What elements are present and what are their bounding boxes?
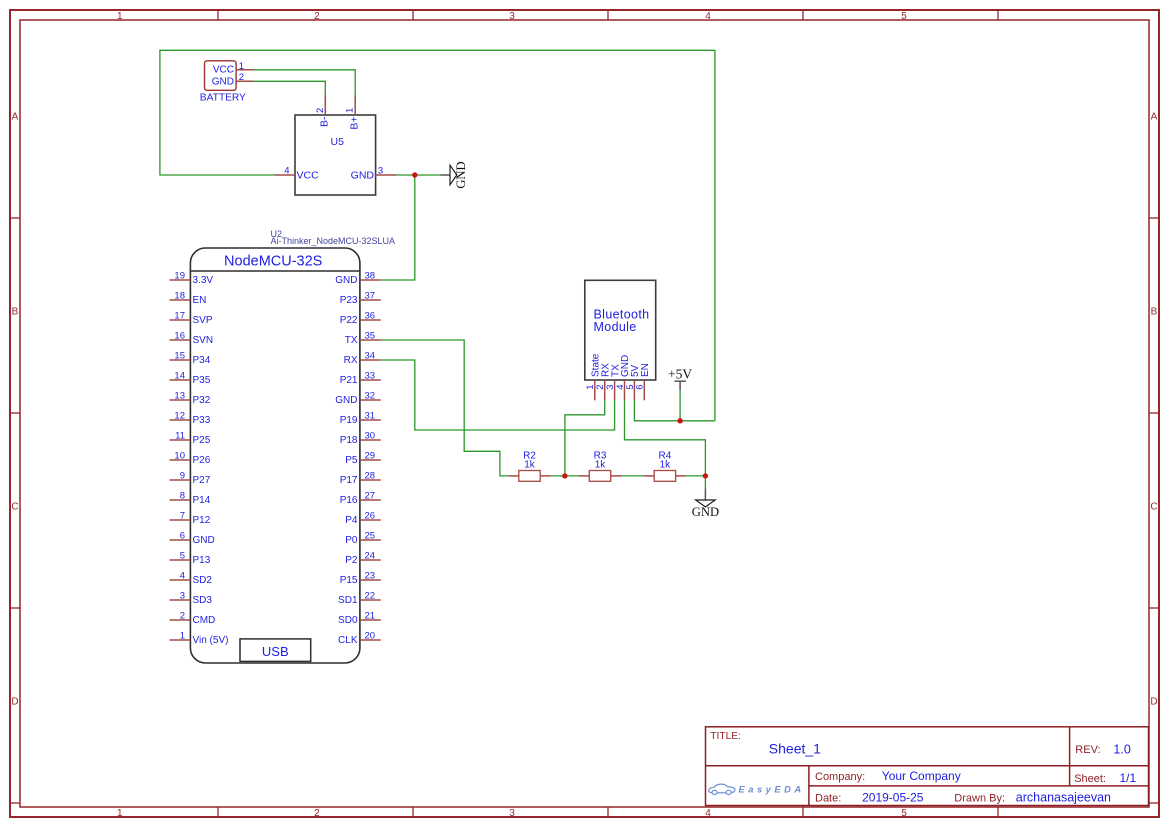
U5 pin 3 (GND) — [351, 166, 397, 182]
Bluetooth module pin 4 (GND) — [615, 355, 631, 401]
U5 pin 2 (B-) — [315, 95, 331, 127]
svg-text:VCC: VCC — [213, 65, 234, 76]
svg-text:20: 20 — [365, 631, 376, 642]
svg-text:P19: P19 — [340, 415, 358, 426]
wire NodeMCU RX to Bluetooth TX — [381, 360, 615, 430]
svg-text:P4: P4 — [345, 515, 358, 526]
svg-text:2: 2 — [315, 108, 326, 113]
wire U5 GND down to NodeMCU GND pin 38 — [381, 175, 415, 280]
svg-text:18: 18 — [174, 291, 185, 302]
svg-text:13: 13 — [174, 391, 185, 402]
svg-text:28: 28 — [365, 471, 376, 482]
NodeMCU pin 22 (SD1) — [338, 591, 381, 607]
NodeMCU pin 12 (P33) — [170, 411, 211, 427]
svg-text:Drawn By:: Drawn By: — [954, 793, 1005, 805]
Bluetooth module pin 6 (EN) — [635, 363, 651, 400]
svg-text:VCC: VCC — [297, 170, 320, 182]
Bluetooth module pin 3 (TX) — [605, 364, 621, 400]
junction R4/ground node — [703, 473, 708, 478]
svg-text:B: B — [12, 307, 19, 318]
NodeMCU pin 28 (P17) — [340, 471, 381, 487]
NodeMCU pin 27 (P16) — [340, 491, 381, 507]
resistor R4 (1k) — [644, 451, 686, 482]
wire R3 to R4 — [621, 475, 644, 477]
svg-text:P23: P23 — [340, 295, 358, 306]
wire Bluetooth 5V to +5V rail — [634, 400, 715, 421]
svg-text:17: 17 — [174, 311, 185, 322]
svg-text:SD2: SD2 — [193, 575, 213, 586]
NodeMCU pin 23 (P15) — [340, 571, 381, 587]
svg-text:1k: 1k — [524, 460, 536, 471]
battery pin 1 (VCC) — [236, 61, 253, 72]
svg-text:1: 1 — [117, 808, 123, 819]
svg-text:3: 3 — [509, 11, 515, 22]
svg-text:P14: P14 — [193, 495, 211, 506]
svg-text:P25: P25 — [193, 435, 211, 446]
svg-text:D: D — [1150, 697, 1157, 708]
svg-text:22: 22 — [365, 591, 376, 602]
svg-text:10: 10 — [174, 451, 185, 462]
svg-text:GND: GND — [212, 77, 234, 88]
svg-text:P5: P5 — [345, 455, 358, 466]
NodeMCU pin 11 (P25) — [170, 431, 211, 447]
wire battery VCC to U5 B+ — [254, 70, 356, 95]
svg-text:BATTERY: BATTERY — [200, 92, 246, 103]
svg-text:6: 6 — [635, 385, 646, 390]
svg-text:Sheet:: Sheet: — [1074, 773, 1106, 785]
NodeMCU pin 34 (RX) — [344, 351, 381, 367]
title block — [706, 727, 1149, 806]
svg-text:5: 5 — [901, 11, 907, 22]
svg-text:P27: P27 — [193, 475, 211, 486]
wire battery GND to U5 B- — [254, 81, 326, 95]
svg-text:P0: P0 — [345, 535, 358, 546]
svg-text:23: 23 — [365, 571, 376, 582]
NodeMCU pin 17 (SVP) — [170, 311, 213, 327]
svg-text:SD0: SD0 — [338, 615, 358, 626]
NodeMCU pin 4 (SD2) — [170, 571, 213, 587]
svg-text:2: 2 — [180, 611, 185, 622]
wire NodeMCU TX to R2 — [381, 340, 509, 476]
svg-text:4: 4 — [705, 808, 711, 819]
svg-text:EN: EN — [640, 363, 651, 377]
svg-text:P15: P15 — [340, 575, 358, 586]
svg-text:Module: Module — [594, 320, 637, 334]
charger module U5 — [295, 115, 376, 195]
svg-text:3: 3 — [509, 808, 515, 819]
svg-text:8: 8 — [180, 491, 185, 502]
svg-text:2: 2 — [239, 72, 244, 83]
wire +5V symbol stem — [679, 390, 681, 421]
svg-text:9: 9 — [180, 471, 185, 482]
svg-text:2019-05-25: 2019-05-25 — [862, 791, 924, 805]
svg-text:34: 34 — [365, 351, 376, 362]
svg-text:4: 4 — [705, 11, 711, 22]
svg-text:7: 7 — [180, 511, 185, 522]
svg-text:D: D — [11, 697, 18, 708]
svg-text:1: 1 — [117, 11, 123, 22]
svg-text:U5: U5 — [331, 136, 345, 148]
NodeMCU pin 30 (P18) — [340, 431, 381, 447]
svg-text:P26: P26 — [193, 455, 211, 466]
wire R2 to R3 — [551, 475, 579, 477]
NodeMCU pin 1 (Vin (5V)) — [170, 631, 229, 647]
svg-text:25: 25 — [365, 531, 376, 542]
svg-text:P33: P33 — [193, 415, 211, 426]
svg-text:12: 12 — [174, 411, 185, 422]
NodeMCU pin 8 (P14) — [170, 491, 211, 507]
svg-text:24: 24 — [365, 551, 376, 562]
svg-text:B-: B- — [319, 116, 331, 127]
junction +5V node — [677, 418, 682, 423]
junction R2/R3 node — [562, 473, 567, 478]
svg-text:P35: P35 — [193, 375, 211, 386]
svg-text:RX: RX — [344, 355, 358, 366]
svg-text:33: 33 — [365, 371, 376, 382]
svg-text:P21: P21 — [340, 375, 358, 386]
NodeMCU pin 20 (CLK) — [338, 631, 381, 647]
svg-text:NodeMCU-32S: NodeMCU-32S — [224, 253, 322, 269]
NodeMCU pin 7 (P12) — [170, 511, 211, 527]
svg-text:1: 1 — [345, 108, 356, 113]
svg-text:TITLE:: TITLE: — [710, 731, 741, 742]
NodeMCU pin 14 (P35) — [170, 371, 211, 387]
NodeMCU pin 25 (P0) — [345, 531, 381, 547]
NodeMCU pin 33 (P21) — [340, 371, 381, 387]
svg-text:32: 32 — [365, 391, 376, 402]
NodeMCU pin 6 (GND) — [170, 531, 215, 547]
svg-text:SD1: SD1 — [338, 595, 358, 606]
svg-text:REV:: REV: — [1075, 744, 1100, 756]
svg-text:A: A — [1151, 112, 1158, 123]
svg-text:3.3V: 3.3V — [193, 275, 214, 286]
svg-text:3: 3 — [378, 166, 383, 177]
svg-text:P18: P18 — [340, 435, 358, 446]
svg-text:21: 21 — [365, 611, 376, 622]
svg-text:1: 1 — [180, 631, 185, 642]
svg-text:Date:: Date: — [815, 793, 841, 805]
svg-text:Sheet_1: Sheet_1 — [769, 741, 821, 757]
svg-text:A: A — [12, 112, 19, 123]
svg-text:USB: USB — [262, 644, 289, 659]
battery BT1 — [200, 61, 246, 104]
resistor R2 (1k) — [508, 451, 550, 482]
svg-text:TX: TX — [345, 335, 358, 346]
svg-text:P2: P2 — [345, 555, 358, 566]
svg-text:P34: P34 — [193, 355, 211, 366]
svg-text:1/1: 1/1 — [1120, 771, 1137, 785]
NodeMCU pin 15 (P34) — [170, 351, 211, 367]
svg-text:3: 3 — [180, 591, 185, 602]
svg-text:4: 4 — [180, 571, 185, 582]
NodeMCU pin 5 (P13) — [170, 551, 211, 567]
svg-text:38: 38 — [365, 271, 376, 282]
svg-text:C: C — [11, 502, 18, 513]
NodeMCU pin 3 (SD3) — [170, 591, 213, 607]
svg-text:11: 11 — [175, 431, 185, 442]
NodeMCU pin 21 (SD0) — [338, 611, 381, 627]
svg-text:GND: GND — [351, 170, 375, 182]
svg-text:1k: 1k — [595, 460, 607, 471]
svg-text:37: 37 — [365, 291, 376, 302]
svg-text:SVP: SVP — [193, 315, 213, 326]
svg-text:P22: P22 — [340, 315, 358, 326]
svg-text:1.0: 1.0 — [1113, 743, 1130, 757]
svg-text:CLK: CLK — [338, 635, 358, 646]
svg-text:36: 36 — [365, 311, 376, 322]
svg-text:P16: P16 — [340, 495, 358, 506]
NodeMCU pin 16 (SVN) — [170, 331, 214, 347]
resistor R3 (1k) — [579, 451, 621, 482]
svg-text:GND: GND — [193, 535, 215, 546]
svg-text:Vin (5V): Vin (5V) — [193, 635, 229, 646]
svg-text:30: 30 — [365, 431, 376, 442]
svg-text:1k: 1k — [660, 460, 672, 471]
svg-text:Ai-Thinker_NodeMCU-32SLUA: Ai-Thinker_NodeMCU-32SLUA — [271, 236, 396, 246]
battery pin 2 (GND) — [236, 72, 253, 83]
NodeMCU pin 36 (P22) — [340, 311, 381, 327]
wire R4 to ground node — [686, 476, 705, 489]
Bluetooth module pin 5 (5V) — [625, 364, 641, 400]
svg-text:SD3: SD3 — [193, 595, 213, 606]
NodeMCU pin 2 (CMD) — [170, 611, 216, 627]
EasyEDA logo — [709, 783, 805, 794]
svg-text:5: 5 — [901, 808, 907, 819]
svg-text:26: 26 — [365, 511, 376, 522]
svg-text:29: 29 — [365, 451, 376, 462]
svg-text:EN: EN — [193, 295, 207, 306]
NodeMCU pin 37 (P23) — [340, 291, 381, 307]
svg-text:31: 31 — [365, 411, 376, 422]
svg-text:P32: P32 — [193, 395, 211, 406]
svg-text:P12: P12 — [193, 515, 211, 526]
NodeMCU pin 9 (P27) — [170, 471, 211, 487]
svg-text:2: 2 — [314, 808, 320, 819]
NodeMCU pin 18 (EN) — [170, 291, 207, 307]
NodeMCU-32S module U2 — [190, 229, 395, 663]
svg-text:GND: GND — [335, 395, 357, 406]
svg-text:27: 27 — [365, 491, 376, 502]
svg-text:SVN: SVN — [193, 335, 214, 346]
svg-text:35: 35 — [365, 331, 376, 342]
svg-text:B+: B+ — [349, 117, 361, 130]
U5 pin 4 (VCC) — [275, 166, 319, 182]
NodeMCU pin 13 (P32) — [170, 391, 211, 407]
svg-text:archanasajeevan: archanasajeevan — [1016, 791, 1111, 805]
svg-text:CMD: CMD — [193, 615, 216, 626]
NodeMCU pin 29 (P5) — [345, 451, 381, 467]
+5V power symbol — [668, 367, 692, 390]
svg-text:5: 5 — [180, 551, 185, 562]
svg-text:2: 2 — [314, 11, 320, 22]
svg-text:16: 16 — [174, 331, 185, 342]
ground symbol near U5 — [440, 161, 468, 188]
svg-text:Company:: Company: — [815, 771, 865, 783]
ground symbol below R4 — [692, 488, 719, 518]
svg-text:4: 4 — [284, 166, 289, 177]
svg-text:6: 6 — [180, 531, 185, 542]
wire Bluetooth GND to ground node — [625, 400, 706, 476]
svg-text:P13: P13 — [193, 555, 211, 566]
svg-text:GND: GND — [692, 505, 719, 519]
svg-text:Your Company: Your Company — [882, 769, 961, 783]
Bluetooth module pin 1 (State) — [585, 353, 601, 400]
wire U5 GND to ground symbol — [396, 174, 440, 176]
NodeMCU pin 26 (P4) — [345, 511, 381, 527]
svg-text:15: 15 — [174, 351, 185, 362]
svg-text:B: B — [1151, 307, 1158, 318]
Bluetooth module pin 2 (RX) — [595, 363, 611, 401]
NodeMCU pin 24 (P2) — [345, 551, 381, 567]
svg-text:EasyEDA: EasyEDA — [739, 783, 805, 794]
svg-text:+5V: +5V — [668, 367, 692, 382]
svg-text:19: 19 — [174, 271, 185, 282]
svg-text:P17: P17 — [340, 475, 358, 486]
wire R2/R3 node to Bluetooth RX — [565, 400, 605, 476]
svg-text:14: 14 — [174, 371, 185, 382]
NodeMCU USB connector box — [240, 639, 311, 662]
NodeMCU pin 10 (P26) — [170, 451, 211, 467]
NodeMCU pin 32 (GND) — [335, 391, 381, 407]
junction near U5 GND — [412, 172, 417, 177]
U5 pin 1 (B+) — [345, 95, 361, 130]
svg-text:1: 1 — [239, 61, 244, 72]
svg-text:GND: GND — [454, 161, 468, 188]
svg-text:GND: GND — [335, 275, 357, 286]
NodeMCU pin 35 (TX) — [345, 331, 381, 347]
NodeMCU pin 31 (P19) — [340, 411, 381, 427]
wire +5V rail loop from U5 VCC — [160, 50, 715, 421]
NodeMCU pin 38 (GND) — [335, 271, 381, 287]
Bluetooth module U3 — [585, 280, 656, 380]
NodeMCU pin 19 (3.3V) — [170, 271, 214, 287]
svg-text:C: C — [1150, 502, 1157, 513]
